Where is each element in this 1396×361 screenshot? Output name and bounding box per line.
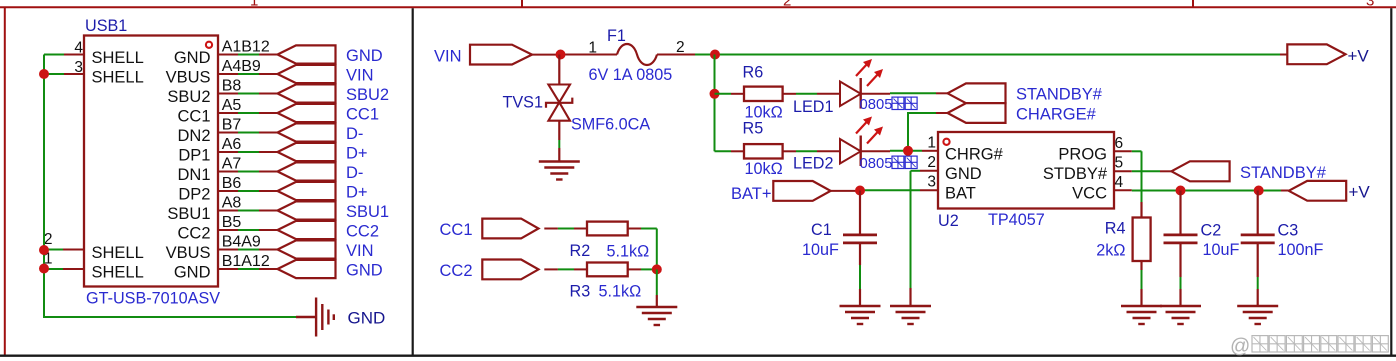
- resistor R6: [744, 87, 783, 101]
- wire USB1 pin A6: [218, 151, 278, 153]
- svg-text:2: 2: [676, 39, 685, 56]
- sheet grid tick x=1193: [1192, 0, 1194, 7]
- svg-text:1: 1: [588, 40, 597, 57]
- svg-text:10uF: 10uF: [1203, 241, 1240, 259]
- svg-text:4: 4: [1115, 174, 1124, 191]
- wire R6 in: [715, 93, 745, 95]
- connector USB1 body: [84, 36, 218, 287]
- svg-text:SBU2: SBU2: [346, 86, 389, 104]
- svg-text:BAT+: BAT+: [731, 185, 772, 203]
- ground TVS1: [539, 162, 580, 180]
- resistor R3: [587, 263, 628, 277]
- svg-text:5: 5: [1115, 155, 1124, 172]
- svg-text:SMF6.0CA: SMF6.0CA: [571, 116, 650, 134]
- svg-text:C3: C3: [1278, 222, 1299, 240]
- svg-text:SHELL: SHELL: [92, 49, 144, 67]
- wire VIN to F1: [532, 54, 617, 56]
- svg-text:GND: GND: [174, 49, 211, 67]
- ground R4: [1121, 306, 1162, 324]
- port flag D+ (pin B6): [278, 182, 336, 200]
- wire STDBY# out: [1114, 170, 1172, 172]
- wire R2 to junction: [628, 229, 657, 270]
- svg-text:A5: A5: [222, 97, 242, 114]
- svg-text:CC1: CC1: [440, 221, 473, 239]
- svg-text:BAT: BAT: [945, 185, 976, 203]
- svg-text:PROG: PROG: [1058, 146, 1107, 164]
- wire USB1 pin B6: [218, 190, 278, 192]
- wire LED1 to STANDBY#: [861, 92, 948, 95]
- junction shell pin2: [39, 245, 49, 255]
- svg-text:GND: GND: [348, 308, 386, 327]
- resistor R5: [744, 144, 783, 158]
- svg-text:5.1kΩ: 5.1kΩ: [607, 243, 650, 261]
- svg-text:A4B9: A4B9: [222, 58, 261, 75]
- svg-text:C2: C2: [1201, 222, 1222, 240]
- svg-text:3: 3: [1366, 0, 1374, 10]
- svg-text:1: 1: [927, 134, 936, 151]
- diode TVS1: [546, 55, 572, 162]
- wire junction to ground: [656, 269, 658, 306]
- svg-text:DP2: DP2: [178, 185, 210, 203]
- port flag VIN (pin B4A9): [278, 240, 336, 258]
- junction shell pin3: [39, 69, 49, 79]
- svg-text:R2: R2: [570, 242, 591, 260]
- svg-text:STANDBY#: STANDBY#: [1016, 85, 1103, 103]
- wire C3 pins: [1257, 191, 1259, 307]
- power flag +V (VCC): [1289, 181, 1347, 201]
- port flag CC1: [482, 219, 538, 239]
- wire C1 pins: [859, 191, 861, 307]
- wire R5 to LED2: [783, 150, 840, 152]
- port flag D+ (pin A6): [278, 143, 336, 161]
- LED LED2: [840, 117, 883, 167]
- port flag STANDBY# (LED1): [948, 83, 1006, 103]
- resistor R2: [587, 222, 628, 236]
- svg-text:CC1: CC1: [346, 105, 379, 123]
- wire CHARGE# stub: [936, 112, 948, 114]
- svg-text:USB1: USB1: [85, 17, 127, 35]
- wire GND riser: [910, 171, 912, 306]
- svg-text:CC2: CC2: [346, 222, 379, 240]
- wire USB1 pin 3 stub: [44, 73, 84, 75]
- junction C2: [1176, 186, 1186, 196]
- svg-text:VBUS: VBUS: [166, 244, 211, 262]
- svg-text:A7: A7: [222, 156, 242, 173]
- svg-text:10uF: 10uF: [802, 241, 839, 259]
- resistor R4: [1133, 218, 1151, 262]
- junction C3: [1254, 186, 1264, 196]
- svg-text:3: 3: [927, 173, 936, 190]
- wire R4 to ground: [1140, 261, 1142, 306]
- port flag GND (pin B1A12): [278, 260, 336, 278]
- sheet border left: [4, 7, 6, 355]
- svg-text:STDBY#: STDBY#: [1043, 165, 1108, 183]
- svg-text:SBU1: SBU1: [346, 203, 389, 221]
- wire U2 GND pin2: [911, 170, 939, 172]
- svg-text:SHELL: SHELL: [92, 244, 144, 262]
- wire USB1 pin B8: [218, 93, 278, 95]
- wire USB1 pin A5: [218, 112, 278, 114]
- svg-text:A8: A8: [222, 195, 242, 212]
- wire VCC rail: [1114, 189, 1289, 191]
- svg-text:GND: GND: [174, 263, 211, 281]
- svg-text:6V 1A 0805: 6V 1A 0805: [589, 66, 673, 84]
- svg-text:2: 2: [927, 154, 936, 171]
- junction BAT+/C1: [855, 186, 865, 196]
- wire USB shell bus: [44, 55, 296, 318]
- svg-text:0805: 0805: [860, 97, 893, 113]
- svg-text:VBUS: VBUS: [166, 68, 211, 86]
- junction VIN/TVS: [556, 50, 566, 60]
- U2 pin1 indicator circle: [943, 139, 949, 145]
- svg-text:A6: A6: [222, 136, 242, 153]
- wire R5 in: [715, 150, 745, 152]
- wire CC2 to R3: [544, 268, 587, 270]
- svg-text:D-: D-: [346, 125, 363, 143]
- svg-text:D-: D-: [346, 164, 363, 182]
- wire C2 pins: [1179, 191, 1181, 307]
- port flag VIN (pin A4B9): [278, 65, 336, 83]
- screenshot border right: [1390, 8, 1392, 355]
- svg-text:2kΩ: 2kΩ: [1096, 242, 1125, 260]
- svg-text:+V: +V: [1348, 47, 1370, 66]
- svg-text:0805: 0805: [860, 156, 893, 172]
- ground R2/R3: [636, 307, 677, 325]
- svg-text:U2: U2: [938, 212, 959, 230]
- svg-text:DN2: DN2: [177, 127, 210, 145]
- svg-text:SHELL: SHELL: [92, 68, 144, 86]
- svg-text:TVS1: TVS1: [503, 94, 544, 112]
- junction R2/R3: [652, 264, 662, 274]
- svg-text:VIN: VIN: [346, 242, 374, 260]
- svg-text:B4A9: B4A9: [222, 234, 261, 251]
- USB1 pin1 indicator circle: [206, 42, 212, 48]
- wire +V stub: [1280, 54, 1287, 56]
- wire USB1 pin A1B12: [218, 54, 278, 56]
- svg-text:CC1: CC1: [177, 107, 210, 125]
- junction LED2/CHRG#: [903, 146, 913, 156]
- svg-text:1: 1: [250, 0, 258, 10]
- ground C2: [1160, 306, 1201, 324]
- ground C3: [1237, 306, 1278, 324]
- screenshot divider vertical: [412, 8, 414, 355]
- wire USB1 pin A4B9: [218, 73, 278, 75]
- wire +V rail: [715, 54, 1280, 56]
- svg-text:D+: D+: [346, 144, 368, 162]
- port flag SBU1 (pin A8): [278, 201, 336, 219]
- svg-text:VIN: VIN: [346, 66, 374, 84]
- svg-text:A1B12: A1B12: [222, 39, 270, 56]
- svg-text:C1: C1: [811, 221, 832, 239]
- junction R6 branch: [710, 89, 720, 99]
- svg-text:VIN: VIN: [434, 48, 462, 66]
- svg-text:R5: R5: [743, 120, 764, 138]
- svg-text:GND: GND: [346, 47, 383, 65]
- svg-text:CC2: CC2: [177, 224, 210, 242]
- wire CC1 to R2: [544, 228, 587, 230]
- svg-text:GT-USB-7010ASV: GT-USB-7010ASV: [86, 290, 220, 308]
- power flag +V top: [1287, 44, 1345, 64]
- svg-text:CHRG#: CHRG#: [945, 146, 1004, 164]
- svg-text:B1A12: B1A12: [222, 253, 270, 270]
- wire USB1 pin B1A12: [218, 268, 278, 270]
- port flag CC2: [482, 260, 538, 280]
- svg-text:B8: B8: [222, 78, 242, 95]
- port flag BAT+: [773, 181, 830, 201]
- wire USB1 pin A8: [218, 210, 278, 212]
- svg-text:CHARGE#: CHARGE#: [1016, 105, 1097, 123]
- port flag CC1 (pin A5): [278, 104, 336, 122]
- svg-text:R6: R6: [743, 64, 764, 82]
- svg-text:GND: GND: [346, 261, 383, 279]
- sheet border top: [0, 6, 1396, 8]
- svg-text:5.1kΩ: 5.1kΩ: [599, 283, 642, 301]
- port flag SBU2 (pin B8): [278, 84, 336, 102]
- svg-text:B6: B6: [222, 175, 242, 192]
- capacitor C3: [1241, 235, 1275, 243]
- svg-text:@: @: [1230, 336, 1250, 358]
- svg-text:D+: D+: [346, 183, 368, 201]
- svg-text:GND: GND: [945, 165, 982, 183]
- svg-text:2: 2: [783, 0, 791, 10]
- svg-text:R3: R3: [570, 283, 591, 301]
- value 0805 red: [860, 156, 918, 172]
- svg-text:LED2: LED2: [793, 155, 834, 173]
- wire USB1 pin B4A9: [218, 249, 278, 251]
- ground GND sideways: [296, 298, 334, 337]
- ground U2 GND: [890, 306, 931, 324]
- port flag D- (pin A7): [278, 162, 336, 180]
- wire USB1 pin A7: [218, 171, 278, 173]
- svg-text:6: 6: [1115, 135, 1124, 152]
- svg-text:STANDBY#: STANDBY#: [1240, 164, 1327, 182]
- wire LED column riser: [714, 55, 716, 152]
- wire USB1 pin 1 stub: [44, 268, 84, 270]
- svg-text:VCC: VCC: [1072, 185, 1107, 203]
- wire USB1 pin B7: [218, 132, 278, 134]
- wire BAT+ to U2 pin3: [831, 189, 938, 192]
- svg-text:+V: +V: [1349, 183, 1371, 202]
- junction F1 output: [710, 50, 720, 60]
- svg-text:LED1: LED1: [793, 98, 834, 116]
- svg-text:F1: F1: [607, 27, 626, 45]
- port flag CHARGE#: [948, 103, 1006, 123]
- ground C1: [840, 306, 881, 324]
- port flag STANDBY# (STDBY): [1171, 161, 1229, 181]
- wire LED2 to U2 pin1: [861, 150, 938, 153]
- IC U2 body: [938, 132, 1114, 209]
- capacitor C2: [1164, 235, 1198, 243]
- port flag VIN: [470, 45, 532, 65]
- svg-text:100nF: 100nF: [1278, 241, 1324, 259]
- capacitor C1: [843, 235, 877, 243]
- svg-text:SHELL: SHELL: [92, 263, 144, 281]
- junction shell pin1: [39, 264, 49, 274]
- svg-text:10kΩ: 10kΩ: [745, 160, 783, 178]
- svg-text:CC2: CC2: [440, 262, 473, 280]
- svg-text:B5: B5: [222, 214, 242, 231]
- wire USB1 pin B5: [218, 229, 278, 231]
- wire R3 to junction: [628, 268, 657, 270]
- wire F1 to junction: [657, 54, 715, 56]
- value 0805 emerald: [860, 97, 918, 113]
- wire USB1 pin 2 stub: [44, 249, 84, 251]
- wire PROG to R4: [1114, 151, 1142, 217]
- port flag CC2 (pin B5): [278, 221, 336, 239]
- svg-text:SBU1: SBU1: [167, 205, 210, 223]
- svg-text:SBU2: SBU2: [167, 88, 210, 106]
- LED LED1: [840, 59, 883, 109]
- svg-text:DN1: DN1: [177, 166, 210, 184]
- svg-text:B7: B7: [222, 117, 242, 134]
- screenshot border bottom: [0, 355, 1396, 357]
- fuse F1: [617, 44, 657, 65]
- port flag D- (pin B7): [278, 123, 336, 141]
- wire CHARGE# riser: [908, 113, 936, 151]
- svg-text:TP4057: TP4057: [988, 211, 1045, 229]
- port flag GND (pin A1B12): [278, 45, 336, 63]
- watermark: [1230, 336, 1388, 358]
- svg-text:R4: R4: [1105, 220, 1126, 238]
- sheet grid tick x=522: [521, 0, 523, 7]
- svg-text:DP1: DP1: [178, 146, 210, 164]
- wire USB1 pin 4 stub: [44, 54, 84, 56]
- wire R6 to LED1: [783, 93, 840, 95]
